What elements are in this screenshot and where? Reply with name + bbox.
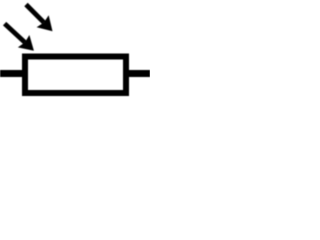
photoresistor LDR symbol <box>0 0 150 150</box>
resistor body <box>25 57 126 94</box>
light arrow 2 <box>5 24 34 51</box>
light arrow 1 <box>26 5 53 32</box>
wire right lead <box>126 70 150 77</box>
wire left lead <box>0 70 25 77</box>
